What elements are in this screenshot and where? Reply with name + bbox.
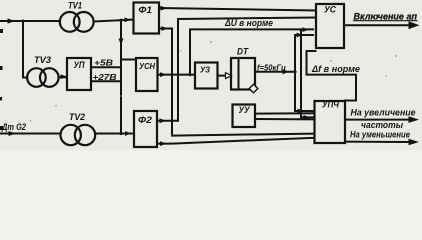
block UP	[67, 58, 91, 90]
arrowhead F2 bottom output	[160, 141, 167, 146]
arrowhead on F1 bottom output	[162, 26, 169, 31]
arrowhead on USN output	[160, 72, 167, 77]
scan speckles	[30, 20, 397, 137]
wire input bottom from left (Dt G2)	[0, 133, 61, 135]
svg-text:Ф1: Ф1	[139, 5, 153, 16]
svg-text:+5В: +5В	[94, 58, 113, 68]
wire F2 top output up to US	[157, 18, 316, 121]
node junction x190 on USN wire	[188, 73, 191, 76]
svg-text:УПЧ: УПЧ	[322, 100, 340, 110]
arrowhead on F1 top output	[161, 6, 168, 11]
wire vertical x121 down to TV2 line	[120, 20, 122, 133]
wire F2 bottom output to UPCh	[157, 138, 315, 144]
wire V2 down to UPCh	[301, 30, 315, 118]
svg-text:TV2: TV2	[69, 112, 85, 122]
arrowhead V1 into UPCh	[298, 109, 305, 114]
diamond at DT bottom	[249, 84, 258, 93]
arrowhead V1 into US	[297, 33, 304, 38]
block F1	[134, 3, 160, 34]
transformer TV1	[60, 12, 94, 32]
svg-text:УСН: УСН	[139, 61, 156, 71]
node junction x121 bottom	[119, 132, 122, 135]
arrowhead na uvelichenie	[409, 116, 420, 123]
divider line in DT	[238, 58, 240, 90]
wire UPCh output na uvelichenie	[345, 119, 411, 121]
arrowhead input bottom	[9, 131, 17, 136]
block USN	[136, 58, 158, 91]
wire dU v norme up to US	[190, 29, 313, 74]
svg-text:ΔU в норме: ΔU в норме	[224, 18, 273, 28]
svg-text:DT: DT	[237, 47, 249, 57]
svg-text:УС: УС	[324, 5, 336, 16]
node junction V2 on dU wire	[299, 28, 302, 31]
arrowhead down on x121 wire	[119, 39, 124, 46]
transformer TV2	[60, 125, 95, 145]
svg-text:TV3: TV3	[34, 55, 51, 65]
arrowhead US output	[409, 21, 420, 29]
svg-text:+27В: +27В	[93, 72, 117, 82]
block UU	[233, 105, 256, 128]
block UPCh	[315, 101, 346, 143]
wire input top arrowhead	[8, 18, 16, 23]
open arrowhead into DT	[226, 73, 232, 79]
svg-text:Дт G2: Дт G2	[1, 122, 26, 132]
wire UZ to DT	[218, 75, 227, 77]
transformer TV3	[27, 68, 58, 87]
wire F1 top output to US	[159, 8, 316, 11]
svg-text:TV1: TV1	[68, 1, 82, 11]
wire UPCh output na umenshenie	[345, 141, 411, 143]
arrowhead into UP	[61, 74, 68, 79]
arrowhead into F2	[125, 131, 132, 136]
wire V1 down to UPCh input	[295, 72, 315, 111]
block US	[316, 4, 344, 48]
node junction top-left x23	[22, 20, 25, 23]
block UZ	[195, 63, 218, 89]
svg-text:УУ: УУ	[239, 105, 251, 115]
wire UU output to UPCh	[255, 113, 315, 119]
wire DT output f=50kHz	[255, 71, 295, 73]
wire UP output +27V	[91, 80, 119, 82]
wire V1 up to US input	[295, 35, 313, 72]
wire df v norme US to UPCh	[307, 51, 357, 101]
wire input top from left	[0, 20, 60, 22]
node junction x121 on TV1 wire	[119, 19, 122, 22]
wire F1 bottom output down and to UPCh	[159, 29, 315, 136]
svg-text:Δf в норме: Δf в норме	[311, 64, 360, 74]
arrowhead on F2 top output	[160, 118, 167, 123]
block F2	[134, 111, 157, 147]
arrowhead into F1	[125, 17, 132, 22]
arrowhead on DT output	[283, 69, 290, 74]
arrowhead V2 into UPCh	[304, 115, 311, 120]
svg-text:УЗ: УЗ	[200, 65, 210, 75]
block DT	[231, 58, 255, 90]
node junction V1	[293, 70, 296, 73]
wire branch x121 into USN	[121, 59, 136, 61]
wire US output Vklyuchenie	[344, 24, 412, 26]
paper grain	[0, 0, 1, 1]
wire USN output to UZ	[158, 74, 196, 76]
wire TV1 to F1	[94, 20, 134, 22]
arrowhead dU into US	[303, 27, 310, 32]
wire TV2 to F2	[95, 133, 134, 135]
wire branch down to TV3	[23, 21, 27, 78]
svg-text:УП: УП	[74, 60, 85, 70]
svg-text:Ф2: Ф2	[138, 115, 153, 126]
svg-text:На уменьшение: На уменьшение	[350, 130, 410, 140]
scan edge artifact marks	[0, 29, 3, 130]
svg-text:На увеличение: На увеличение	[351, 107, 416, 117]
arrowhead na umenshenie	[409, 139, 420, 146]
wire TV3 to UP	[59, 76, 67, 78]
wire UP output +5V	[91, 66, 119, 68]
svg-text:f=50кГц: f=50кГц	[257, 64, 286, 73]
